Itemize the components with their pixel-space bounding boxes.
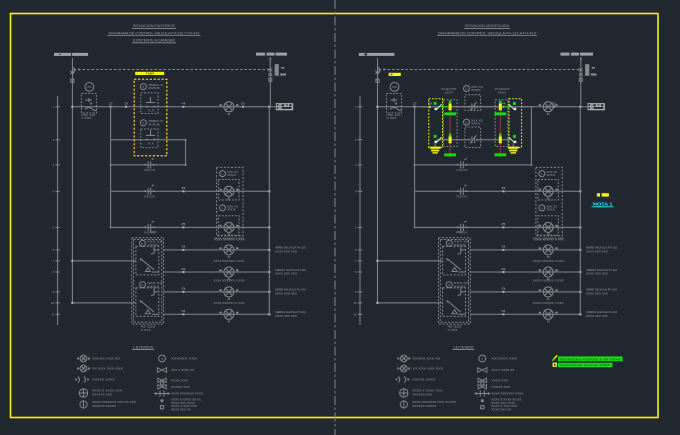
svg-text:XXXX XXX: XXXX XXX — [171, 379, 188, 383]
svg-text:DIAGRAMA DE CONTROL VALVULA FV: DIAGRAMA DE CONTROL VALVULA FV-110 Y FV-… — [109, 31, 200, 35]
svg-text:FV-410 XXX: FV-410 XXX — [495, 87, 510, 91]
svg-text:R: R — [228, 255, 231, 259]
svg-text:X.X: X.X — [148, 143, 155, 145]
svg-text:XXXX XXXXXXX XXXX: XXXX XXXXXXX XXXX — [491, 392, 523, 396]
svg-text:XXX: XXX — [148, 86, 161, 90]
svg-text:XXXX XXXXXXX XXX XX XXX: XXXX XXXXXXX XXX XX XXX — [412, 400, 456, 404]
svg-text:XXX: XXX — [227, 173, 236, 177]
svg-text:XXXX X XXX XXX: XXXX X XXX XXX — [491, 404, 517, 408]
svg-text:XXXXX XXXX: XXXXX XXXX — [92, 378, 115, 382]
svg-text:XXXX: XXXX — [471, 122, 481, 126]
svg-text:X.XXX: X.XXX — [387, 116, 397, 120]
svg-text:XXXX X XXXX XX XX: XXXX X XXXX XX XX — [171, 398, 201, 402]
svg-text:XXXX XXX XXX: XXXX XXX XXX — [275, 250, 297, 254]
svg-text:XXXX XXXXXX X.XXX: XXXX XXXXXX X.XXX — [213, 237, 244, 241]
svg-text:LEYENDA: LEYENDA — [454, 345, 475, 349]
svg-text:K: K — [448, 283, 450, 287]
svg-text:XXX X XXXX XX: XXX X XXXX XX — [491, 368, 514, 372]
svg-text:XXXX X XXXX XX XX: XXXX X XXXX XX XX — [491, 398, 521, 402]
svg-text:XXXX XXXXXX X.XXX: XXXX XXXXXX X.XXX — [213, 301, 244, 305]
svg-text:XXXX XXX XXX: XXXX XXX XXX — [586, 250, 608, 254]
svg-text:R: R — [547, 197, 550, 201]
svg-text:R: R — [228, 297, 231, 301]
svg-text:FV-110 X.XXX: FV-110 X.XXX — [144, 169, 155, 172]
svg-text:XXXX XXX XXX: XXXX XXX XXX — [275, 272, 297, 276]
svg-text:X.XXX: X.XXX — [81, 116, 91, 120]
svg-text:CIERRA VALVULA FV-410: CIERRA VALVULA FV-410 — [586, 310, 617, 314]
svg-text:XXXX XXX XXX: XXXX XXX XXX — [275, 292, 297, 296]
svg-text:XXXX XXXXXX X.XXX: XXXX XXXXXX X.XXX — [533, 279, 564, 283]
svg-text:XXXX: XXXX — [147, 284, 159, 288]
svg-text:CIERRA VALVULA FV-110: CIERRA VALVULA FV-110 — [275, 268, 306, 272]
svg-text:CIERRA VALVULA FV-410: CIERRA VALVULA FV-410 — [275, 310, 306, 314]
svg-text:XXXX XXXXXX X.XXX: XXXX XXXXXX X.XXX — [533, 301, 564, 305]
svg-text:XXXX: XXXX — [498, 90, 506, 94]
svg-text:T: T — [142, 121, 144, 125]
svg-text:FV-110 X.XXX: FV-110 X.XXX — [144, 196, 155, 199]
svg-text:XXXX: XXXX — [471, 88, 481, 92]
svg-text:T: T — [481, 357, 483, 361]
svg-text:XXXXX XXX: XXXXX XXX — [171, 385, 190, 389]
svg-text:XXXX: XXXX — [147, 243, 159, 247]
svg-text:XXXX XXXXXX X.XXX: XXXX XXXXXX X.XXX — [533, 237, 564, 241]
svg-text:PS: PS — [87, 85, 91, 89]
svg-text:X.XXX: X.XXX — [448, 328, 458, 332]
svg-text:ABRE VALVULA FV-410: ABRE VALVULA FV-410 — [586, 288, 618, 292]
svg-text:XXX: XXX — [546, 173, 555, 177]
svg-text:FV-110 X.XXX: FV-110 X.XXX — [457, 196, 468, 199]
svg-text:X.X: X.X — [148, 110, 155, 112]
svg-text:XXXX XXX XXX: XXXX XXX XXX — [586, 272, 608, 276]
svg-text:XXXXXX XXX: XXXXXX XXX — [92, 392, 112, 396]
svg-text:NOTA 1: NOTA 1 — [593, 201, 613, 206]
svg-text:XXXX X XXX XXX: XXXX X XXX XXX — [171, 404, 197, 408]
svg-text:EXISTENTE A CAMBIAR: EXISTENTE A CAMBIAR — [133, 39, 175, 43]
svg-text:XXXX: XXXX — [445, 90, 453, 94]
svg-text:XXX: XXX — [150, 230, 157, 234]
svg-text:PS: PS — [392, 85, 396, 89]
svg-text:XXXXXXXX XXXXXX X XX XXXX: XXXXXXXX XXXXXX X XX XXXX — [560, 357, 621, 361]
svg-text:T: T — [142, 85, 144, 89]
svg-text:11: 11 — [354, 312, 357, 316]
svg-text:CIERRA VALVULA FV-110: CIERRA VALVULA FV-110 — [586, 268, 617, 272]
svg-text:XXXXXX XXX: XXXXXX XXX — [171, 357, 197, 361]
svg-text:R: R — [228, 197, 231, 201]
svg-text:XXX: XXX — [227, 208, 236, 212]
svg-text:XXXXX XXX XX: XXXXX XXX XX — [412, 357, 440, 361]
svg-text:XXXX XXXXXX X.XXX: XXXX XXXXXX X.XXX — [213, 259, 244, 263]
svg-text:K: K — [141, 283, 143, 287]
svg-text:FV-110 X.XXX: FV-110 X.XXX — [457, 169, 468, 172]
svg-text:ABRE VALVULA FV-110: ABRE VALVULA FV-110 — [586, 246, 618, 250]
svg-text:XXXX XXX XXX: XXXX XXX XXX — [586, 292, 608, 296]
svg-text:XXXX XXX XXX: XXXX XXX XXX — [586, 314, 608, 318]
svg-text:FV-110 XXX: FV-110 XXX — [441, 87, 456, 91]
svg-text:K: K — [141, 241, 143, 245]
svg-text:XXXX XXX XX: XXXX XXX XX — [171, 407, 191, 411]
svg-text:SITUACION EXISTENTE: SITUACION EXISTENTE — [133, 24, 176, 28]
svg-text:10: 10 — [51, 301, 55, 305]
svg-text:S: S — [465, 120, 467, 124]
svg-text:XXXX XXXXXX X.XXX: XXXX XXXXXX X.XXX — [213, 279, 244, 283]
svg-text:R: R — [547, 112, 550, 116]
svg-text:R: R — [228, 233, 231, 237]
svg-text:S: S — [465, 87, 467, 91]
svg-text:R: R — [547, 255, 550, 259]
svg-text:X.XXX: X.XXX — [141, 328, 151, 332]
svg-text:XXX: XXX — [546, 208, 555, 212]
svg-text:K: K — [448, 241, 450, 245]
svg-text:XXXXXXXX XXXXX XXXX: XXXXXXXX XXXXX XXXX — [560, 363, 611, 367]
svg-text:R: R — [547, 320, 550, 324]
svg-text:XXXXX XXX: XXXXX XXX — [491, 385, 510, 389]
svg-text:XXXX XXXXXXX XXX XX XXX: XXXX XXXXXXX XXX XX XXX — [92, 400, 136, 404]
svg-text:LEYENDA: LEYENDA — [133, 345, 154, 349]
svg-text:XXXX X XXXX XXX: XXXX X XXXX XXX — [412, 389, 442, 393]
svg-text:ABRE VALVULA FV-410: ABRE VALVULA FV-410 — [275, 288, 307, 292]
svg-text:XXXXXX XXX: XXXXXX XXX — [491, 357, 517, 361]
svg-text:XXXXXX XXXXX: XXXXXX XXXXX — [92, 404, 116, 408]
svg-text:R: R — [547, 233, 550, 237]
svg-text:XXXX XXXXXX X.XXX: XXXX XXXXXX X.XXX — [533, 259, 564, 263]
svg-text:XXX X XXXX XX: XXX X XXXX XX — [171, 368, 194, 372]
svg-text:R: R — [228, 320, 231, 324]
svg-text:XXX: XXX — [457, 230, 464, 234]
svg-text:XX XXX XXX XXX: XX XXX XXX XXX — [412, 367, 443, 371]
svg-text:R: R — [547, 297, 550, 301]
svg-text:R: R — [228, 112, 231, 116]
svg-text:DIAGRAMA DE CONTROL VALVULA FV: DIAGRAMA DE CONTROL VALVULA FV-110 A FV-… — [438, 31, 536, 35]
svg-text:XXXX XXXXXXX XXXX: XXXX XXXXXXX XXXX — [171, 392, 203, 396]
svg-text:XXXXXX XXX: XXXXXX XXX — [412, 392, 432, 396]
svg-text:XXXX XXX XXX: XXXX XXX XXX — [275, 314, 297, 318]
svg-text:XXX: XXX — [148, 122, 161, 126]
svg-text:11: 11 — [51, 312, 54, 316]
svg-text:XX XXX XXX XXX: XX XXX XXX XXX — [92, 367, 123, 371]
svg-text:XXXXX XXXX: XXXXX XXXX — [412, 378, 435, 382]
svg-text:T: T — [161, 357, 163, 361]
svg-text:XXXX XXX: XXXX XXX — [491, 379, 508, 383]
svg-text:ABRE VALVULA FV-110: ABRE VALVULA FV-110 — [275, 246, 307, 250]
svg-text:42-110: 42-110 — [141, 325, 156, 329]
svg-text:XXXX: XXXX — [454, 243, 466, 247]
svg-text:XXXX: XXXX — [454, 284, 466, 288]
svg-text:XXXXXX XXXXX: XXXXXX XXXXX — [412, 404, 436, 408]
svg-text:SITUACION MODIFICADA: SITUACION MODIFICADA — [465, 24, 510, 28]
svg-text:XXXX X XXXX XXX: XXXX X XXXX XXX — [92, 389, 122, 393]
svg-text:XXXX XXX XX: XXXX XXX XX — [491, 407, 511, 411]
svg-text:TMR: TMR — [145, 72, 155, 76]
svg-text:42-110: 42-110 — [448, 325, 463, 329]
svg-text:10: 10 — [353, 301, 357, 305]
svg-text:XXXXX XXX XX: XXXXX XXX XX — [92, 357, 120, 361]
